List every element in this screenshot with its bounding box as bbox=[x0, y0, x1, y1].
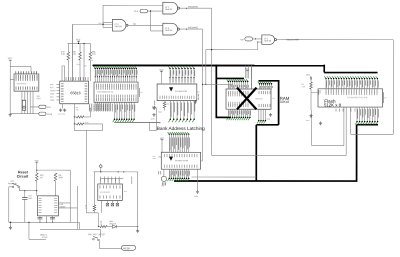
svg-text:CLKp: CLKp bbox=[47, 114, 53, 116]
svg-text:74HC00: 74HC00 bbox=[114, 26, 122, 28]
svg-text:ABORT: ABORT bbox=[50, 89, 56, 92]
svg-text:HM62256: HM62256 bbox=[255, 98, 263, 100]
svg-text:SN74HC573N: SN74HC573N bbox=[175, 91, 188, 93]
svg-text:CLK: CLK bbox=[134, 11, 139, 13]
svg-text:SN74LS04N: SN74LS04N bbox=[100, 192, 111, 194]
svg-text:U11: U11 bbox=[124, 191, 127, 193]
svg-text:+ 1.1A: + 1.1A bbox=[88, 59, 94, 62]
svg-text:WE(2MHZ): WE(2MHZ) bbox=[188, 6, 198, 8]
svg-text:CLK: CLK bbox=[161, 185, 164, 187]
svg-text:RESB: RESB bbox=[123, 247, 130, 250]
svg-text:CLK: CLK bbox=[47, 107, 52, 109]
svg-text:SN74HCT273N: SN74HCT273N bbox=[175, 160, 189, 162]
svg-text:0.01uF: 0.01uF bbox=[42, 237, 48, 239]
svg-text:CMO54HC5x: CMO54HC5x bbox=[17, 83, 27, 85]
svg-text:1R5: 1R5 bbox=[152, 156, 155, 158]
svg-text:SST39SF040-70-4C-PHE: SST39SF040-70-4C-PHE bbox=[347, 97, 368, 99]
svg-text:74HC00: 74HC00 bbox=[264, 41, 272, 43]
svg-text:U4: U4 bbox=[140, 92, 142, 94]
svg-text:74SC16AB7TO-16: 74SC16AB7TO-16 bbox=[97, 91, 113, 94]
svg-text:Circuit: Circuit bbox=[17, 175, 29, 179]
svg-text:RW: RW bbox=[99, 23, 102, 25]
svg-text:VCC: VCC bbox=[306, 75, 311, 77]
svg-text:Bank Address Latching: Bank Address Latching bbox=[157, 126, 205, 131]
svg-text:PHI2: PHI2 bbox=[77, 64, 81, 66]
svg-text:U3: U3 bbox=[384, 97, 386, 99]
svg-text:GND GND: GND GND bbox=[58, 113, 66, 115]
svg-text:100K: 100K bbox=[58, 177, 63, 179]
svg-text:512K x 8: 512K x 8 bbox=[324, 102, 342, 107]
svg-text:GND: GND bbox=[37, 98, 42, 100]
svg-text:1M: 1M bbox=[40, 177, 43, 179]
svg-text:OE(L)FLASH: OE(L)FLASH bbox=[287, 38, 300, 41]
svg-text:74HC00: 74HC00 bbox=[165, 9, 173, 11]
svg-text:32Kx8: 32Kx8 bbox=[280, 100, 290, 104]
svg-text:WE(2MHZ): WE(2MHZ) bbox=[188, 27, 198, 29]
svg-text:74HC00: 74HC00 bbox=[165, 30, 173, 32]
svg-text:150: 150 bbox=[76, 109, 79, 111]
svg-text:U2: U2 bbox=[273, 98, 275, 100]
svg-text:JP6_TACT_RESET: JP6_TACT_RESET bbox=[88, 233, 106, 236]
svg-text:VCC: VCC bbox=[8, 58, 13, 60]
svg-text:A15: A15 bbox=[240, 38, 243, 41]
svg-text:65816: 65816 bbox=[70, 91, 80, 95]
